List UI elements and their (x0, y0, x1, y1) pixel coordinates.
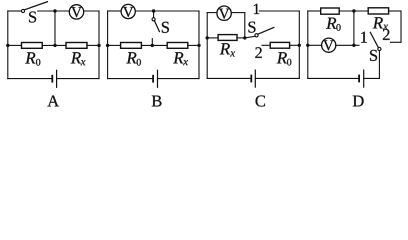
voltmeter V (A): circle (69, 5, 83, 19)
wire: C left rail (206, 13, 208, 79)
wire: D bottom right of battery (364, 77, 380, 79)
label D (353, 96, 364, 107)
wire: A middle left segment (8, 44, 22, 46)
wire: A between R0 and Rx (42, 44, 66, 46)
label V (D) (323, 40, 334, 50)
voltmeter V (D): circle (322, 38, 336, 52)
wire: C Rx to junction (237, 37, 245, 39)
label S (C) (248, 22, 255, 33)
voltmeter V (C): circle (217, 6, 231, 20)
label S (B) (162, 22, 169, 33)
wire: A top-left to switch (8, 10, 22, 12)
label 2 (D) (383, 29, 390, 40)
label Rx (A) (71, 52, 86, 65)
battery (A): long thin plate (56, 70, 58, 87)
label S (A) (29, 11, 36, 22)
resistor Rx (C) (218, 35, 237, 41)
battery (C): long thin plate (254, 70, 256, 87)
switch S (B): pivot circle (152, 18, 155, 21)
node: D middle-left junction (306, 44, 309, 47)
wire: B top-left to voltmeter (108, 10, 122, 12)
label R0 (C) (277, 52, 292, 65)
wire: D R0 to Rx (339, 10, 368, 12)
wire: A right rail (98, 11, 100, 79)
wire: C bottom left of battery (207, 77, 250, 79)
label R0 (A) (25, 52, 40, 65)
switch S (B): top stub (153, 11, 155, 18)
resistor R0 (C) (270, 42, 289, 48)
wire: A top V to right rail (84, 10, 99, 12)
label V (A) (71, 7, 82, 17)
switch S (A): pivot circle (21, 9, 24, 12)
wire: B bottom left of battery (108, 78, 153, 80)
node: C junction Rx right (243, 36, 246, 39)
label 2 (C) (255, 47, 261, 58)
wire: B between R0 and Rx (141, 44, 167, 46)
wire: A left rail (7, 11, 9, 79)
resistor Rx (B) (167, 43, 188, 49)
label R0 (B) (126, 52, 141, 65)
wire: D Rx to right rail (389, 10, 401, 12)
label Rx (B) (173, 52, 188, 65)
resistor R0 (D) (321, 8, 340, 14)
label R0 (D) (326, 18, 341, 31)
battery (C): short thick plate (250, 75, 252, 83)
switch S (B): bottom stub (151, 39, 153, 46)
node: C right-rail junction (298, 44, 301, 47)
battery (B): short thick plate (152, 75, 154, 83)
wire: C voltmeter loop down (244, 13, 246, 38)
wire: B bottom right of battery (158, 78, 200, 80)
wire: C junction to switch pivot (245, 36, 255, 38)
wire: A bottom left of battery (8, 78, 52, 80)
node: A top junction (53, 9, 56, 12)
battery (B): long thin plate (157, 70, 159, 87)
switch S (D): blade (370, 32, 378, 47)
label S (D) (370, 50, 377, 61)
wire: D vertical from top junction (353, 11, 355, 45)
resistor Rx (A) (66, 43, 87, 49)
label Rx (D) (373, 17, 388, 29)
node: B middle-left junction (106, 44, 109, 47)
wire: A middle right segment (87, 44, 99, 46)
label Rx (C) (220, 43, 235, 56)
node: B top junction (152, 9, 155, 12)
node: A middle junction (53, 44, 56, 47)
battery (A): short thick plate (51, 75, 53, 83)
label A (47, 96, 59, 107)
label C (256, 95, 265, 106)
wire: A top after switch (38, 10, 70, 12)
resistor Rx (D) (368, 8, 388, 14)
wire: D top-left to R0 (308, 10, 321, 12)
label 1 (C) (254, 4, 259, 14)
node: A middle-left junction (6, 44, 9, 47)
voltmeter V (B): circle (121, 4, 135, 18)
switch S (D): pivot circle (378, 47, 381, 50)
label 1 (D) (361, 32, 367, 43)
wire: C right rail (298, 11, 300, 78)
wire: A bottom right of battery (57, 78, 99, 80)
wire: C contact-1 wire top (259, 10, 299, 12)
switch S (C): blade (258, 27, 274, 34)
wire: C top-left to voltmeter (207, 12, 217, 14)
battery (D): long thin plate (363, 70, 365, 87)
label V (B) (123, 7, 134, 17)
switch S (C): pivot circle (255, 34, 258, 37)
switch S (A): blade (24, 2, 47, 10)
node: B middle-right junction (197, 44, 200, 47)
resistor R0 (B) (121, 43, 142, 49)
node: D middle junction (352, 44, 355, 47)
wire: D contact-2 stub (391, 41, 402, 43)
wire: D left rail (307, 11, 309, 78)
wire: C contact-2 stub (262, 44, 270, 46)
wire: C voltmeter to corner (231, 12, 245, 14)
wire: B left rail (107, 11, 109, 79)
wire: B middle left segment (108, 44, 121, 46)
wire: B right rail (198, 11, 200, 79)
label B (152, 96, 162, 107)
wire: C R0 to right rail (290, 44, 300, 46)
wire: C Rx row left (207, 37, 218, 39)
node: C left-rail junction (206, 36, 209, 39)
wire: B middle right segment (188, 44, 199, 46)
wire: D right rail down to contact 2 (400, 11, 402, 42)
node: A middle-right junction (97, 44, 100, 47)
wire: C bottom right of battery (255, 77, 299, 79)
wire: A vertical from top junction to middle (54, 11, 56, 45)
node: D top junction (352, 9, 355, 12)
battery (D): short thick plate (358, 75, 360, 83)
wire: D middle left to voltmeter (308, 44, 322, 46)
label V (C) (219, 9, 230, 19)
wire: D bottom left of battery (308, 77, 358, 79)
node: B middle junction (151, 44, 154, 47)
resistor R0 (A) (22, 43, 43, 49)
wire: D pivot down to bottom (378, 51, 380, 79)
switch S (B): blade (155, 21, 160, 32)
wire: D voltmeter to contact 1 (336, 44, 359, 46)
wire: B top voltmeter to right (135, 10, 199, 12)
